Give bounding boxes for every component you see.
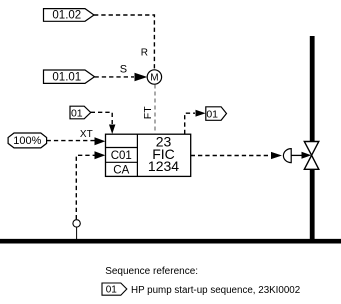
svg-text:HP pump start-up sequence, 23K: HP pump start-up sequence, 23KI0002 — [131, 285, 300, 296]
svg-text:FT: FT — [142, 106, 154, 119]
svg-text:01.01: 01.01 — [52, 72, 81, 84]
svg-text:01: 01 — [106, 285, 118, 296]
svg-text:100%: 100% — [13, 135, 41, 147]
svg-text:01.02: 01.02 — [52, 10, 81, 22]
svg-text:01: 01 — [71, 107, 83, 119]
svg-text:XT: XT — [80, 129, 93, 140]
svg-text:01: 01 — [206, 108, 218, 120]
svg-text:Sequence reference:: Sequence reference: — [105, 266, 198, 277]
svg-text:CA: CA — [113, 164, 129, 176]
svg-text:M: M — [150, 73, 158, 84]
svg-text:1234: 1234 — [148, 158, 179, 174]
svg-text:S: S — [120, 63, 127, 75]
svg-text:R: R — [141, 48, 148, 59]
svg-text:C01: C01 — [111, 150, 132, 162]
